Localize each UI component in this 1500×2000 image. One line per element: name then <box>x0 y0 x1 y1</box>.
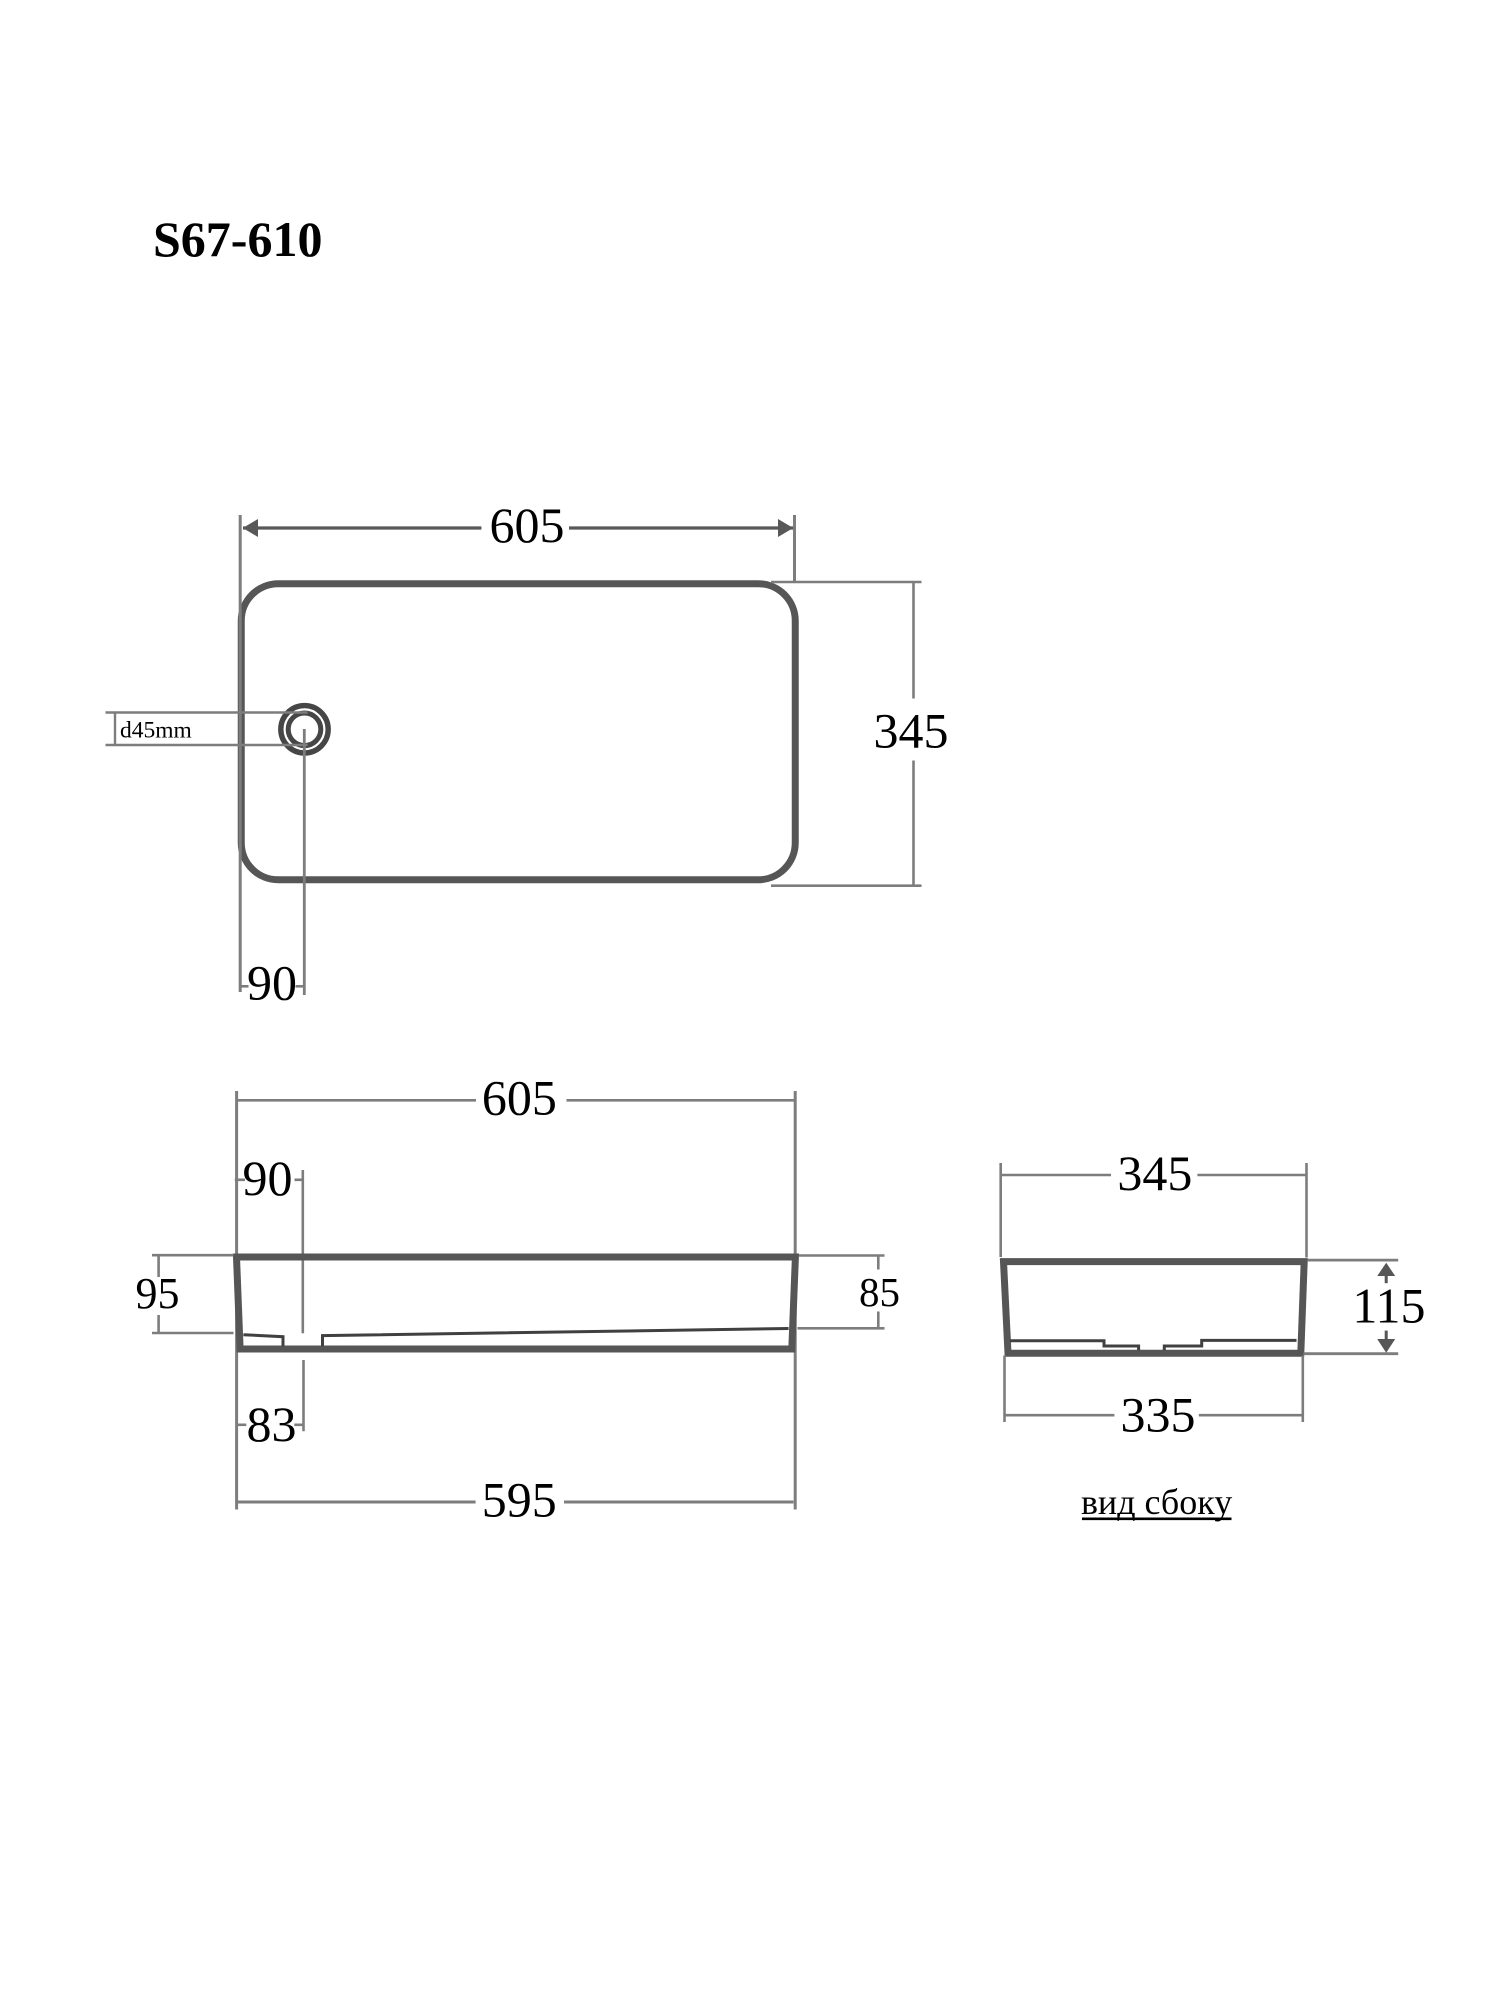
svg-text:85: 85 <box>859 1269 900 1315</box>
svg-text:345: 345 <box>1117 1145 1192 1201</box>
svg-text:335: 335 <box>1121 1386 1196 1442</box>
svg-text:83: 83 <box>247 1396 297 1452</box>
svg-text:90: 90 <box>247 955 297 1011</box>
svg-text:345: 345 <box>874 702 949 758</box>
svg-text:S67-610: S67-610 <box>153 211 322 267</box>
svg-text:90: 90 <box>243 1150 293 1206</box>
svg-text:605: 605 <box>482 1070 557 1126</box>
svg-text:605: 605 <box>490 497 565 553</box>
svg-text:95: 95 <box>136 1269 180 1318</box>
svg-text:вид сбоку: вид сбоку <box>1081 1482 1232 1522</box>
svg-text:d45mm: d45mm <box>120 718 192 744</box>
svg-text:595: 595 <box>482 1471 557 1527</box>
svg-text:115: 115 <box>1352 1278 1425 1334</box>
